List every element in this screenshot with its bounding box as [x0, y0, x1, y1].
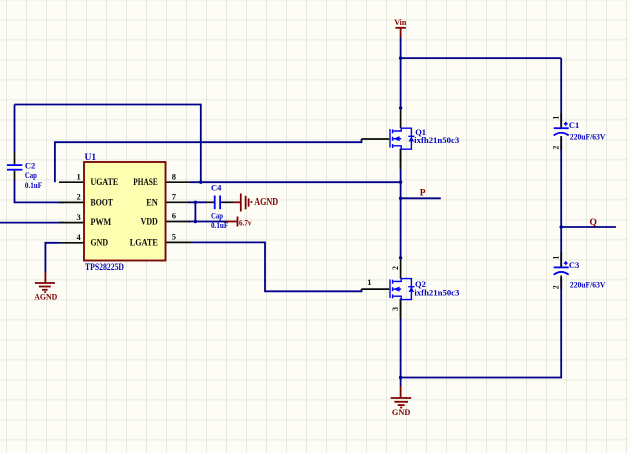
- svg-text:LGATE: LGATE: [130, 238, 158, 248]
- svg-text:C4: C4: [211, 183, 222, 193]
- svg-text:EN: EN: [146, 198, 158, 208]
- svg-text:0.1uF: 0.1uF: [211, 220, 228, 230]
- svg-text:PHASE: PHASE: [133, 178, 158, 188]
- svg-text:C1: C1: [569, 120, 579, 130]
- svg-text:AGND: AGND: [254, 197, 278, 208]
- svg-text:1: 1: [552, 256, 561, 260]
- svg-text:220uF/63V: 220uF/63V: [570, 279, 606, 289]
- svg-text:6.7v: 6.7v: [239, 217, 252, 227]
- svg-text:1: 1: [367, 277, 371, 287]
- svg-text:3: 3: [77, 212, 81, 222]
- svg-text:PWM: PWM: [91, 218, 112, 228]
- svg-text:TPS28225D: TPS28225D: [85, 263, 124, 273]
- svg-text:0.1uF: 0.1uF: [25, 180, 42, 190]
- svg-text:Vin: Vin: [394, 17, 406, 27]
- svg-text:2: 2: [552, 285, 561, 289]
- svg-text:6: 6: [172, 211, 176, 221]
- svg-text:2: 2: [77, 192, 81, 202]
- svg-text:AGND: AGND: [34, 291, 57, 301]
- svg-text:8: 8: [172, 171, 176, 181]
- svg-text:U1: U1: [85, 153, 97, 163]
- svg-text:1: 1: [552, 116, 561, 120]
- svg-text:2: 2: [552, 146, 561, 150]
- svg-text:Cap: Cap: [211, 210, 223, 220]
- svg-text:BOOT: BOOT: [91, 198, 114, 208]
- svg-text:C2: C2: [25, 160, 35, 170]
- svg-text:C3: C3: [569, 260, 579, 270]
- svg-text:220uF/63V: 220uF/63V: [570, 132, 606, 142]
- svg-text:GND: GND: [91, 238, 109, 248]
- svg-text:2: 2: [391, 266, 400, 270]
- svg-text:1: 1: [77, 171, 81, 181]
- svg-text:Q: Q: [590, 218, 597, 228]
- svg-text:7: 7: [172, 192, 177, 202]
- svg-text:GND: GND: [392, 407, 411, 417]
- svg-text:Cap: Cap: [25, 170, 37, 180]
- svg-text:P: P: [420, 189, 426, 199]
- svg-text:UGATE: UGATE: [91, 178, 119, 188]
- svg-text:ixfh21n50c3: ixfh21n50c3: [414, 288, 459, 298]
- svg-text:VDD: VDD: [141, 218, 158, 228]
- svg-text:5: 5: [172, 232, 176, 242]
- svg-text:ixfh21n50c3: ixfh21n50c3: [414, 135, 459, 145]
- svg-text:3: 3: [391, 307, 400, 311]
